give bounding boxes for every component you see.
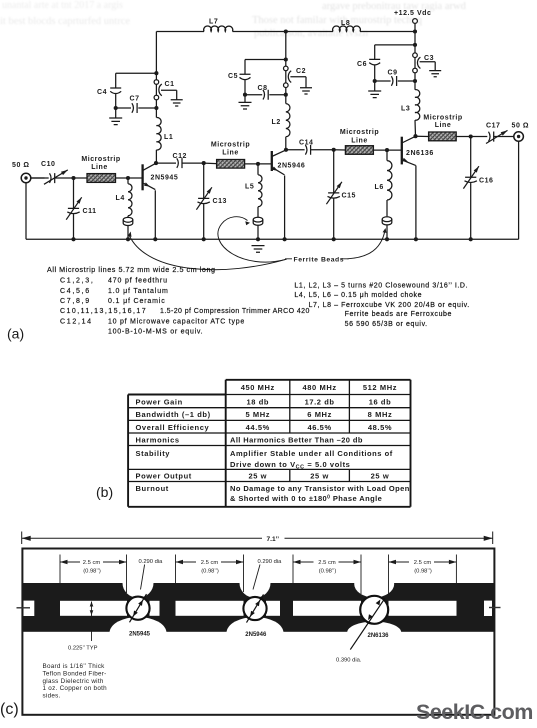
svg-text:C3: C3 [424,55,434,62]
node: stage2 C5 branch junction [284,57,288,61]
wire: microstrip2 to base Q2 [245,163,272,165]
svg-text:8 MHz: 8 MHz [368,410,393,419]
PCB note text [43,663,108,700]
wire: C5 branch [245,60,286,75]
svg-text:glass Dielectric with: glass Dielectric with [43,678,104,685]
svg-text:2.5 cm: 2.5 cm [414,560,432,566]
svg-text:L4: L4 [116,195,125,202]
PCB transistor hole Q2 [243,594,266,622]
ferrite bead (L4) [123,217,133,239]
svg-text:All Microstrip lines 5.72 mm w: All Microstrip lines 5.72 mm wide 2.5 cm… [47,265,216,274]
svg-text:44.5%: 44.5% [246,423,270,432]
svg-text:25 w: 25 w [371,472,390,481]
PCB top edge notch (Q2) [240,568,271,598]
dimension 2.5 cm set 1 [60,555,127,594]
svg-text:Ferrite Beads: Ferrite Beads [294,257,345,264]
PCB transistor hole Q1 [126,594,149,622]
PCB board outline [22,549,494,715]
svg-text:2N6136: 2N6136 [367,633,389,639]
svg-text:C4,5,6: C4,5,6 [60,288,91,295]
svg-text:Overall Efficiency: Overall Efficiency [136,423,210,432]
capacitor C4 [110,88,121,118]
PCB copper ground plane band [22,583,495,632]
capacitor C14 [286,145,334,155]
node: base Q3 / L6 junction [385,148,389,152]
node: C8/main junction [284,93,288,97]
wire: C8 branch [245,94,286,96]
PCB bottom edge notch (Q3) [347,622,401,644]
svg-text:Ferrite beads are Ferroxcube: Ferrite beads are Ferroxcube [345,311,452,318]
microstrip line 3 [345,146,373,155]
capacitor C7 [132,103,137,113]
dimension 2.5 cm set 3 [293,555,361,595]
label 0.290 dia (Q2) with leader [253,559,282,590]
microstrip line 1 [87,174,116,183]
trimmer capacitor C15 [326,150,342,240]
label: figure (c) [0,701,19,718]
PCB etched gaps in microstrip row [24,601,493,616]
svg-text:50 Ω: 50 Ω [512,123,530,130]
PCB input connector lead [17,607,31,609]
inductor L5 [258,164,262,217]
output connector 50 ohm [514,132,524,240]
svg-text:25 w: 25 w [248,472,267,481]
node: rail junction stage3 [413,29,417,33]
svg-text:Power Output: Power Output [136,472,192,481]
capacitor C9 [391,76,396,86]
svg-text:C1: C1 [165,81,175,88]
svg-text:1.5-20 pf Compression Trimmer: 1.5-20 pf Compression Trimmer ARCO 420 [160,308,310,315]
svg-text:2.5 cm: 2.5 cm [318,560,336,566]
capacitor C6 [369,59,380,91]
node: C7/main junction [154,106,158,110]
ferrite bead (L6) [382,217,392,240]
wire: C4 branch horizontal [116,73,157,88]
wire: microstrip4 to output node [456,136,487,138]
svg-text:C17: C17 [486,123,501,130]
svg-text:+12.5 Vdc: +12.5 Vdc [394,10,431,17]
svg-text:C4: C4 [97,89,107,96]
svg-text:5 MHz: 5 MHz [245,410,270,419]
svg-text:2.5 cm: 2.5 cm [83,560,101,566]
ground (C1) [171,100,183,106]
feedthrough capacitor C1 [154,80,177,100]
ground (below C5) [239,102,252,109]
svg-text:Microstrip: Microstrip [423,114,462,121]
dimension 2.5 cm set 4 [389,555,457,595]
svg-text:C9: C9 [388,70,398,77]
svg-text:2N5945: 2N5945 [151,175,179,182]
svg-text:it best blocds caprturfed untr: it best blocds caprturfed untrce [0,16,130,27]
svg-text:(0.98’’): (0.98’’) [414,569,432,575]
node: base Q2 / L5 junction [256,162,260,166]
svg-text:2N6136: 2N6136 [406,150,434,157]
table (b) outer frame [128,380,410,507]
inductor L4 [128,178,132,217]
wire: top supply rail [156,31,415,33]
svg-text:Microstrip: Microstrip [81,156,120,163]
svg-text:16 db: 16 db [369,397,392,406]
node: collector Q2 [284,148,288,152]
node: output shunt junction [469,134,473,138]
parts list: L1,L2,L3 value [294,283,468,290]
svg-text:C12,14: C12,14 [60,318,93,325]
svg-text:Teflon Bonded Fiber-: Teflon Bonded Fiber- [43,670,107,677]
dimension 7.1 inch overall [22,532,493,545]
wire: C9 branch [375,80,415,82]
svg-text:L6: L6 [375,184,384,191]
parts list: C1,2,3 value [60,278,168,285]
node: collector Q3 [413,134,417,138]
PCB transistor hole Q3 [350,596,388,650]
wire: to microstrip 3 [334,149,346,151]
svg-text:Amplifier Stable under all Con: Amplifier Stable under all Conditions of [230,449,393,458]
wire: to microstrip 1 [74,177,88,179]
table (b) row dividers [128,395,410,482]
svg-text:0.225’’ TYP: 0.225’’ TYP [68,646,98,652]
svg-text:0.290 dia: 0.290 dia [258,559,283,565]
svg-text:C14: C14 [299,140,314,147]
parts list: ferrite beads value [345,311,452,318]
svg-text:C2: C2 [296,68,306,75]
node: C12/C13 junction [202,161,206,165]
svg-text:50 Ω: 50 Ω [12,162,30,169]
svg-text:C10,11,13,15,16,17: C10,11,13,15,16,17 [60,308,147,315]
svg-text:Harmonics: Harmonics [136,435,180,444]
inductor L3 [415,90,420,137]
svg-text:Bandwidth (–1 db): Bandwidth (–1 db) [136,410,211,419]
wire: stage1 feed vertical [155,32,157,118]
node: C6/C9 junction [373,79,377,83]
svg-text:6 MHz: 6 MHz [307,410,332,419]
label 0.390 dia with leader [336,658,362,664]
label transistor Q1 position 2N5945 [129,632,151,638]
svg-text:C7,8,9: C7,8,9 [60,298,91,305]
svg-text:Microstrip: Microstrip [340,129,379,136]
node: stage1 C4 branch junction [154,71,158,75]
svg-text:7.1’’: 7.1’’ [267,536,280,543]
svg-text:46.5%: 46.5% [307,423,331,432]
svg-text:C5: C5 [228,73,238,80]
svg-text:Line: Line [435,122,452,129]
label transistor Q3 position 2N6136 [367,633,389,639]
watermark SeekIC.com [416,700,533,724]
trimmer capacitor C16 [463,137,479,240]
node: rail junction stage2 [284,29,288,33]
svg-text:C11: C11 [83,208,97,215]
wire: stage3 feed vertical [414,45,416,90]
label transistor Q2 position 2N5946 [245,632,267,638]
node: stage3 C6 branch junction [413,43,417,47]
svg-text:publicatson, avaitatie tvszn: publicatson, avaitatie tvszn [254,28,369,39]
svg-text:C1,2,3,: C1,2,3, [60,278,94,285]
svg-text:C6: C6 [357,61,367,68]
svg-text:C12: C12 [173,153,188,160]
svg-text:Drive down to VCC = 5.0 volts: Drive down to VCC = 5.0 volts [230,460,350,471]
ground (below C4) [109,118,122,125]
svg-text:C16: C16 [479,178,494,185]
inductor L1 [156,117,161,163]
svg-text:C15: C15 [342,193,357,200]
wire: microstrip1 to base Q1 [116,177,143,179]
svg-text:L4, L5, L6 – 0.15 μh molded ch: L4, L5, L6 – 0.15 μh molded choke [294,292,422,299]
dimension 0.225 TYP [90,602,94,642]
feedthrough capacitor C3 [413,53,436,73]
svg-text:Stability: Stability [136,449,171,458]
svg-text:56 590 65/3B or equiv.: 56 590 65/3B or equiv. [345,321,428,328]
svg-text:L2: L2 [272,119,281,126]
svg-text:Burnout: Burnout [136,484,169,493]
svg-text:C7: C7 [130,96,140,103]
PCB top edge notch (Q3) [354,571,394,598]
svg-text:Power Gain: Power Gain [136,397,183,406]
svg-text:L3: L3 [401,106,410,113]
svg-text:All Harmonics Better Than –20: All Harmonics Better Than –20 db [230,435,363,444]
inductor L6 [387,150,392,216]
wire: microstrip3 to base Q3 [373,149,401,151]
capacitor C12 [156,158,204,168]
parts list: C7,8,9 value [60,298,166,305]
node: ground rail junctions [71,237,472,241]
svg-text:(0.98’’): (0.98’’) [319,569,337,575]
trimmer capacitor C10 [31,170,74,184]
svg-text:SeekIC.com: SeekIC.com [416,700,533,724]
inductor L7 [204,26,233,32]
wire: emitter Q1 to ground rail [154,190,156,239]
parts list: microstrip note [47,265,216,274]
ferrite bead (L5) [253,217,263,239]
+12.5 Vdc supply terminal [413,19,418,45]
svg-text:C13: C13 [213,198,228,205]
svg-text:& Shorted with 0 to ±1800 Phas: & Shorted with 0 to ±1800 Phase Angle [230,494,382,503]
parts list: L4,L5,L6 value [294,292,422,299]
transistor Q2 2N5946 [272,150,286,175]
wire: emitter Q2 to ground rail [284,176,286,240]
svg-text:2N5945: 2N5945 [129,632,151,638]
svg-text:(b): (b) [96,484,113,500]
parts list: C12,14 value line2 [108,329,203,336]
wire: ground rail [26,238,519,240]
inductor L8 [333,26,361,32]
svg-text:No Damage to any Transistor wi: No Damage to any Transistor with Load Op… [230,484,410,493]
transistor Q3 2N6136 [402,136,416,165]
svg-text:Line: Line [222,150,239,157]
svg-text:C8: C8 [258,85,268,92]
svg-text:18 db: 18 db [247,397,270,406]
label: figure (a) [7,326,24,342]
ground (below C6) [368,91,381,98]
node: input shunt junction [71,176,75,180]
label 0.290 dia (Q1) with leader [139,559,164,590]
wire: stage2 feed vertical [285,32,287,104]
wire: collector Q3 to microstrip 4 [416,135,429,137]
svg-text:2N5946: 2N5946 [278,163,306,170]
PCB bottom edge notch (Q2) [227,617,284,649]
svg-text:(0.98’’): (0.98’’) [83,569,101,575]
ground (C2) [300,88,312,94]
svg-text:25 w: 25 w [310,472,329,481]
svg-text:0.390 dia.: 0.390 dia. [336,658,362,664]
parts list: C4,5,6 value [60,288,169,295]
svg-text:Line: Line [91,164,108,171]
svg-text:0.290 dia: 0.290 dia [139,559,164,565]
parts list: ferrite beads value line2 [345,321,428,328]
node: base Q1 / L4 junction [126,176,130,180]
svg-text:L7, L8 – Ferroxcube VK 200: L7, L8 – Ferroxcube VK 200 20/4B or equi… [309,302,470,309]
label: figure (b) [96,484,113,500]
svg-text:L1: L1 [164,134,173,141]
parts list: C10.. value [60,308,310,315]
trimmer capacitor C13 [196,163,212,239]
node: C5/C8 junction [243,93,247,97]
svg-text:2N5946: 2N5946 [245,632,267,638]
svg-text:470 pf feedthru: 470 pf feedthru [108,278,168,285]
svg-text:L8: L8 [341,20,350,27]
capacitor C5 [240,74,251,102]
svg-text:Microstrip: Microstrip [211,142,250,149]
svg-text:sides.: sides. [43,693,61,700]
capacitor C8 [263,90,268,100]
svg-text:Line: Line [351,138,368,145]
svg-text:512 MHz: 512 MHz [363,383,397,392]
node: C14/C15 junction [332,148,336,152]
svg-text:(a): (a) [7,326,24,342]
svg-text:(0.98’’): (0.98’’) [201,569,219,575]
parts list: C12,14 value [60,318,245,325]
input connector 50 ohm [21,173,44,239]
svg-text:L1, L2, L3 – 5 turns #20 Clos: L1, L2, L3 – 5 turns #20 Closewound 3/16… [294,283,468,290]
microstrip line 4 [429,132,457,141]
ferrite beads callout arrows [128,217,387,270]
table (b) header column dividers [290,380,350,482]
parts list: L7,L8 value [309,302,470,309]
feedthrough capacitor C2 [284,66,307,88]
transistor Q1 2N5945 [143,163,156,190]
svg-text:1 oz. Copper on both: 1 oz. Copper on both [43,685,108,692]
svg-text:10 pf Microwave capacitor ATC: 10 pf Microwave capacitor ATC type [108,318,245,325]
svg-text:(c): (c) [0,701,19,718]
svg-text:L7: L7 [209,18,218,25]
wire: to microstrip 2 [204,162,217,165]
svg-text:100-B-10-M-MS or equiv.: 100-B-10-M-MS or equiv. [108,329,203,336]
svg-text:unantal arte at tnt 2017 a arg: unantal arte at tnt 2017 a argis [2,0,123,11]
svg-text:0.1 μf Ceramic: 0.1 μf Ceramic [108,298,166,305]
svg-text:450 MHz: 450 MHz [241,383,275,392]
node: C9/main junction [413,79,417,83]
svg-text:17.2 db: 17.2 db [305,397,335,406]
microstrip line 2 [217,160,245,169]
svg-text:48.5%: 48.5% [368,423,392,432]
node: C4/C7 junction [114,106,118,110]
svg-text:Board is 1/16’’ Thick: Board is 1/16’’ Thick [43,663,106,670]
svg-text:480 MHz: 480 MHz [302,383,336,392]
trimmer capacitor C17 [486,130,514,143]
dimension 2.5 cm set 2 [176,555,244,593]
wire: emitter Q3 to ground rail [415,166,417,240]
PCB top edge notch (Q1) [123,568,154,598]
svg-text:L5: L5 [245,184,254,191]
inductor L2 [286,104,290,150]
ground (rail) [252,246,265,253]
wire: C7 branch [116,107,157,109]
svg-text:C10: C10 [41,161,56,168]
ground (C3) [429,71,441,77]
PCB output connector lead [489,607,501,609]
PCB bottom edge notch (Q1) [110,617,167,649]
node: collector Q1 [154,161,158,165]
wire: C6 branch [375,45,415,59]
trimmer capacitor C11 [66,178,82,239]
svg-text:1.0 μf Tantalum: 1.0 μf Tantalum [108,288,169,295]
svg-text:2.5 cm: 2.5 cm [201,560,219,566]
